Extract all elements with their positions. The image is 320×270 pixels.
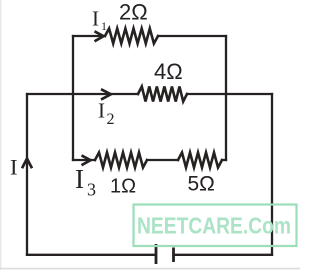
arrow I1 head (chevron) [95, 31, 104, 41]
arrow I3 head (chevron) [82, 155, 91, 165]
scan edge artifact bottom [0, 268, 300, 270]
wire bottom inner branch left segment [73, 159, 95, 161]
resistor R2 4ohm zigzag [138, 87, 187, 102]
wire bottom inner branch right segment [222, 159, 226, 161]
wire bottom inner branch middle segment [147, 159, 178, 161]
resistor R3 1ohm zigzag [95, 153, 147, 168]
watermark box [134, 205, 297, 247]
battery left plate (long) [155, 244, 158, 264]
arrow I head (upward chevron on left wire) [22, 159, 32, 169]
scan edge artifact left [0, 0, 2, 270]
wire top branch right segment [158, 35, 226, 37]
svg-text:2: 2 [107, 111, 115, 128]
resistor R1 2ohm zigzag [105, 29, 158, 44]
wire bottom right (from battery) [174, 254, 273, 256]
wire bottom left (to battery) [27, 254, 155, 256]
svg-text:2Ω: 2Ω [119, 0, 148, 25]
svg-text:NEETCARE.Com: NEETCARE.Com [137, 213, 291, 239]
svg-text:I: I [75, 164, 84, 194]
svg-text:4Ω: 4Ω [154, 59, 183, 84]
svg-text:3: 3 [87, 180, 96, 200]
arrow I2 head (chevron) [101, 89, 111, 99]
svg-text:I: I [10, 155, 18, 180]
svg-text:I: I [98, 99, 105, 123]
wire middle branch left segment [27, 93, 138, 95]
battery right plate (short) [172, 248, 175, 263]
wire right outer vertical [271, 94, 273, 255]
wire middle branch right segment [187, 93, 272, 95]
svg-text:5Ω: 5Ω [188, 173, 215, 196]
wire inner right vertical [225, 36, 227, 160]
resistor R4 5ohm zigzag [178, 153, 222, 168]
svg-text:1Ω: 1Ω [110, 176, 136, 198]
svg-text:I: I [92, 7, 99, 31]
svg-text:1: 1 [101, 19, 107, 33]
wire top branch left segment [73, 35, 105, 37]
wire left outer vertical [26, 94, 28, 255]
wire inner left vertical [72, 36, 74, 160]
